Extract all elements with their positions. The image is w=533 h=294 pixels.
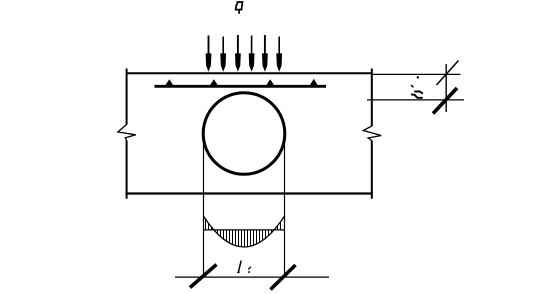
load arrow 5: [262, 35, 268, 72]
load arrow 1: [206, 36, 212, 72]
rebar stud mark 3: [266, 79, 274, 85]
span label l1: [237, 261, 251, 273]
beam left edge upper segment: [126, 69, 128, 125]
beam top edge: [127, 72, 372, 74]
span dimension line: [175, 276, 329, 278]
rebar stud mark 4: [310, 79, 318, 85]
depth extension line bottom: [367, 99, 464, 101]
depth extension line top: [372, 73, 461, 75]
tangent reference line left: [203, 134, 205, 278]
beam left edge break symbol: [118, 125, 136, 141]
load arrow 6: [276, 37, 282, 72]
circular opening: [203, 93, 285, 175]
beam left edge lower segment: [126, 141, 128, 199]
depth tick top (thin slash): [437, 61, 459, 86]
distributed load label q: [236, 2, 243, 14]
moment diagram hatching: [206, 219, 281, 247]
moment diagram chord: [204, 229, 285, 231]
rebar stud mark 2: [210, 79, 218, 85]
rebar stud mark 1: [165, 79, 173, 85]
beam right edge upper segment: [371, 69, 373, 127]
rebar line: [155, 85, 327, 88]
span tick right (thick slash): [271, 265, 296, 290]
span tick left (thick slash): [190, 265, 217, 288]
moment diagram curve: [204, 216, 285, 247]
beam right edge break symbol: [363, 126, 381, 141]
load arrow 2: [220, 37, 226, 72]
depth label h': [411, 76, 423, 98]
tangent reference line right: [284, 134, 286, 278]
beam bottom edge: [126, 192, 373, 194]
load arrow 4: [249, 36, 255, 72]
depth tick bottom (thick slash): [433, 88, 457, 114]
depth dimension line vertical: [445, 64, 447, 112]
load arrow 3: [235, 35, 241, 72]
beam right edge lower segment: [371, 141, 373, 199]
